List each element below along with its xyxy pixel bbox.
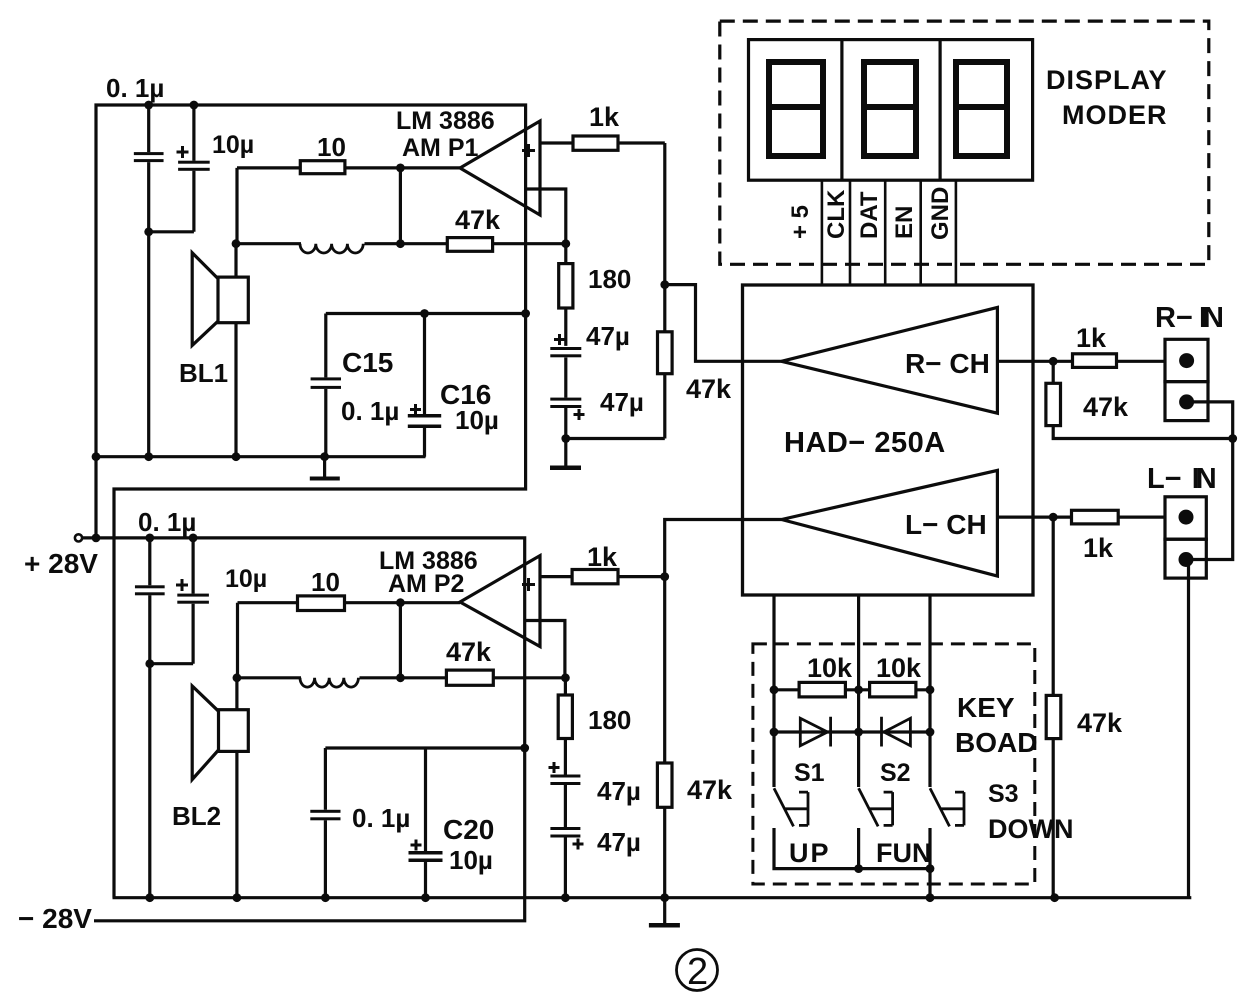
wire AMP2 caps bottom junction xyxy=(150,662,193,665)
connector R-IN upper xyxy=(1165,339,1208,381)
resistor 1k L-IN xyxy=(1072,510,1119,524)
svg-text:BL1: BL1 xyxy=(179,358,228,388)
svg-text:10µ: 10µ xyxy=(449,845,493,875)
capacitor C-0.1u AMP2 plates xyxy=(135,585,165,588)
switch S2 xyxy=(859,788,893,826)
svg-text:GND: GND xyxy=(927,187,954,240)
capacitor C20 leads xyxy=(424,748,427,898)
speaker BL2 leads xyxy=(235,678,238,898)
op-amp U2 plus sign xyxy=(522,578,535,591)
svg-text:AM P1: AM P1 xyxy=(402,134,479,162)
capacitor C-0.1u AMP1 supply leads xyxy=(147,105,150,457)
wire R-IN return xyxy=(1186,402,1233,560)
inductor L2 xyxy=(300,678,358,687)
op-amp U1 AMP1 triangle xyxy=(460,121,540,215)
svg-text:2: 2 xyxy=(687,951,708,993)
wire AMP2 input row xyxy=(238,603,461,678)
svg-text:47k: 47k xyxy=(687,775,733,805)
capacitor C16 plates xyxy=(408,414,441,418)
amplifier L-CH triangle xyxy=(782,470,998,576)
capacitor C-10u AMP1 plus sign xyxy=(177,146,189,158)
svg-text:47µ: 47µ xyxy=(597,827,641,857)
wire AMP1 output cap branch xyxy=(326,312,526,315)
wire AMP1 input row xyxy=(237,168,460,244)
resistor 1k R-IN xyxy=(1073,354,1117,368)
ground AMP1 chain stub xyxy=(564,439,567,466)
wire L-CH output xyxy=(997,515,1165,518)
capacitor C20 plates xyxy=(409,851,443,855)
svg-text:1k: 1k xyxy=(589,102,620,132)
svg-text:47µ: 47µ xyxy=(597,776,641,806)
capacitor 0.1u AMP2 out leads xyxy=(324,748,327,898)
speaker BL1 leads xyxy=(234,244,237,457)
ic HAD-250A box xyxy=(743,285,1034,595)
resistor 47k R-CH leads xyxy=(663,143,666,439)
diode D1 leads xyxy=(774,730,859,733)
capacitor 47u AMP1 mid lead xyxy=(564,358,567,398)
svg-text:C15: C15 xyxy=(342,347,393,378)
svg-text:+ 5: + 5 xyxy=(787,205,814,239)
capacitor 47u AMP1 lower plus xyxy=(574,409,585,420)
svg-text:FUN: FUN xyxy=(876,838,932,868)
svg-text:1k: 1k xyxy=(1076,323,1107,353)
resistor 47k R-CH input xyxy=(658,332,673,374)
wire display pins xyxy=(822,180,956,285)
switch S1 xyxy=(774,788,808,826)
svg-text:1k: 1k xyxy=(1083,533,1114,563)
capacitor 47u AMP1 upper plates xyxy=(550,347,581,350)
svg-text:+ 28V: + 28V xyxy=(24,548,98,579)
diode D2 leads xyxy=(859,730,930,733)
wire ground bottom rail xyxy=(113,896,1192,899)
resistor 180 AMP1 xyxy=(559,264,573,308)
display module box xyxy=(749,40,1033,181)
capacitor C-10u AMP2 plates xyxy=(177,594,209,597)
wire AMP1 feedback row xyxy=(236,242,566,245)
capacitor C-0.1u AMP2 supply leads xyxy=(148,538,151,898)
resistor 47k AMP2 feedback xyxy=(446,670,493,685)
svg-text:0. 1µ: 0. 1µ xyxy=(341,396,399,426)
capacitor C16 plus xyxy=(410,404,421,415)
wire AMP2 output cap branch xyxy=(325,746,524,749)
wire AMP2 +28V top rail, right edge and -28V line xyxy=(81,538,525,921)
svg-text:47k: 47k xyxy=(686,374,732,404)
seven-segment digit 1 xyxy=(769,62,823,156)
connector L-IN pin dots xyxy=(1179,510,1194,525)
resistor 47k L-CH input xyxy=(657,763,672,807)
resistor 47k R leads xyxy=(1053,361,1233,438)
wire AMP1 inverting input xyxy=(526,189,566,244)
svg-text:10: 10 xyxy=(317,132,346,162)
wire switch bottoms xyxy=(774,828,930,898)
keyboard dashed box xyxy=(753,644,1035,884)
wire key column S2 upper xyxy=(857,595,860,787)
svg-text:MODER: MODER xyxy=(1062,100,1168,130)
capacitor C-10u AMP1 plates xyxy=(178,161,210,164)
resistor 10 AMP2 xyxy=(298,596,345,611)
svg-text:10: 10 xyxy=(311,567,340,597)
svg-text:0. 1µ: 0. 1µ xyxy=(106,73,164,103)
connector R-IN lower xyxy=(1165,382,1208,421)
resistor 180 AMP2 xyxy=(558,695,572,739)
capacitor C20 plus xyxy=(411,840,422,851)
op-amp U2 AMP2 triangle xyxy=(460,556,540,647)
ground AMP1 chain bar xyxy=(550,466,581,471)
ground main bar xyxy=(649,923,680,928)
wire AMP2 inverting input xyxy=(526,621,565,678)
capacitor 47u AMP2 lower plus xyxy=(573,839,584,850)
svg-text:10µ: 10µ xyxy=(455,405,499,435)
capacitor C-10u AMP2 leads xyxy=(192,538,195,664)
svg-text:AM P2: AM P2 xyxy=(388,570,464,598)
wire 10k row xyxy=(774,688,930,691)
svg-text:47k: 47k xyxy=(1083,392,1129,422)
svg-text:10k: 10k xyxy=(807,653,853,683)
connector L-IN upper xyxy=(1165,497,1206,539)
svg-text:47k: 47k xyxy=(446,637,492,667)
svg-text:CLK: CLK xyxy=(823,189,850,239)
wire to L-CH input xyxy=(665,520,782,577)
svg-text:0. 1µ: 0. 1µ xyxy=(352,803,410,833)
svg-text:0. 1µ: 0. 1µ xyxy=(138,507,196,537)
wire AMP2 feedback row xyxy=(238,676,566,679)
capacitor 47u AMP2 lower plates xyxy=(550,827,580,830)
wire +28V left rail and AMP1 top rail xyxy=(96,105,526,898)
svg-text:47k: 47k xyxy=(1077,708,1123,738)
wire R-CH output xyxy=(997,360,1165,363)
wire AMP2 noninverting input xyxy=(540,575,665,578)
svg-text:DISPLAY: DISPLAY xyxy=(1046,65,1168,95)
svg-text:47µ: 47µ xyxy=(600,387,644,417)
resistor 180 AMP2 leads xyxy=(564,678,567,775)
speaker BL1 driver box xyxy=(218,277,248,323)
svg-text:BL2: BL2 xyxy=(172,801,221,831)
ground AMP1 bar xyxy=(310,477,340,481)
svg-text:KEY: KEY xyxy=(957,692,1015,723)
svg-text:S3: S3 xyxy=(988,780,1019,808)
resistor 10k left xyxy=(799,682,845,697)
resistor 180 AMP1 leads xyxy=(564,244,567,346)
svg-text:R− CH: R− CH xyxy=(905,348,990,379)
capacitor 47u AMP2 upper plus xyxy=(549,762,560,773)
wire AMP1 inner ground rail xyxy=(96,455,426,458)
switch S3 xyxy=(930,788,964,826)
svg-text:180: 180 xyxy=(588,264,631,294)
resistor 47k L-CH leads xyxy=(663,577,666,898)
capacitor C15 plates xyxy=(311,377,341,380)
svg-text:EN: EN xyxy=(891,206,918,239)
capacitor 47u AMP2 mid lead xyxy=(564,785,567,827)
svg-text:10µ: 10µ xyxy=(225,565,267,593)
wire AMP1 chain bottom xyxy=(566,408,665,439)
ground main stub xyxy=(663,898,666,923)
resistor 1k AMP1 xyxy=(573,136,618,150)
capacitor C-10u AMP1 leads xyxy=(192,105,195,232)
speaker BL2 cone xyxy=(192,686,218,780)
capacitor 47u AMP2 upper plates xyxy=(550,775,580,778)
ground AMP1 stub xyxy=(323,457,326,477)
connector L-IN lower xyxy=(1165,539,1206,578)
seven-segment digit 3 xyxy=(956,62,1007,156)
svg-text:R− IN: R− IN xyxy=(1155,302,1224,334)
capacitor C16 leads xyxy=(423,314,426,457)
wire AMP1 caps bottom junction xyxy=(149,230,194,233)
resistor 47k keyboard side xyxy=(1046,695,1061,738)
svg-text:L− CH: L− CH xyxy=(905,509,987,540)
resistor 47k AMP1 feedback xyxy=(447,238,492,252)
seven-segment digit 2 xyxy=(864,62,916,156)
svg-text:180: 180 xyxy=(588,705,631,735)
svg-text:47µ: 47µ xyxy=(586,321,630,351)
capacitor 47u AMP1 upper plus xyxy=(554,334,565,345)
svg-text:DAT: DAT xyxy=(856,191,883,239)
page number circled 2 xyxy=(677,950,718,991)
svg-text:1k: 1k xyxy=(587,542,618,572)
resistor 47k R xyxy=(1046,383,1061,425)
op-amp U1 plus sign xyxy=(522,144,535,157)
resistor 1k AMP2 xyxy=(572,570,618,584)
svg-text:− 28V: − 28V xyxy=(18,903,92,934)
display moder dashed box xyxy=(720,21,1209,264)
wire to R-CH input xyxy=(665,285,782,362)
node +28V terminal xyxy=(75,534,82,541)
svg-text:HAD− 250A: HAD− 250A xyxy=(784,427,946,459)
wire AMP2 chain bottom xyxy=(564,838,567,898)
capacitor 47u AMP1 lower plates xyxy=(550,398,581,401)
wire AMP1 noninverting input xyxy=(540,141,665,144)
svg-text:UP: UP xyxy=(789,838,831,868)
svg-text:47k: 47k xyxy=(455,205,501,235)
wire L-IN ground drop xyxy=(1187,560,1190,898)
diode D2 xyxy=(882,717,911,747)
capacitor C-0.1u AMP1 plates xyxy=(134,152,164,155)
svg-text:LM 3886: LM 3886 xyxy=(396,107,495,135)
amplifier R-CH triangle xyxy=(782,307,998,413)
svg-text:S1: S1 xyxy=(794,759,825,787)
display digit dividers xyxy=(842,40,940,181)
svg-text:10k: 10k xyxy=(876,653,922,683)
svg-text:DOWN: DOWN xyxy=(988,814,1073,844)
capacitor 0.1u AMP2 out plates xyxy=(310,810,340,813)
svg-text:C20: C20 xyxy=(443,814,494,845)
resistor 10 AMP1 xyxy=(300,161,345,174)
capacitor C-10u AMP2 plus sign xyxy=(176,579,188,591)
speaker BL1 cone xyxy=(192,253,218,346)
inductor L1 xyxy=(300,244,363,253)
svg-text:S2: S2 xyxy=(880,759,911,787)
capacitor C15 leads xyxy=(324,314,327,457)
resistor 10k right xyxy=(870,682,916,697)
wire key column S3 upper xyxy=(928,595,931,787)
speaker BL2 driver box xyxy=(219,710,249,752)
connector R-IN pin dots xyxy=(1179,353,1194,368)
diode D1 xyxy=(800,717,830,747)
svg-text:BOAD: BOAD xyxy=(955,727,1037,758)
wire key column S1 upper xyxy=(772,595,775,787)
svg-text:L− IN: L− IN xyxy=(1147,463,1217,495)
svg-text:10µ: 10µ xyxy=(212,131,254,159)
wire L-CH 47k column xyxy=(1052,517,1055,898)
